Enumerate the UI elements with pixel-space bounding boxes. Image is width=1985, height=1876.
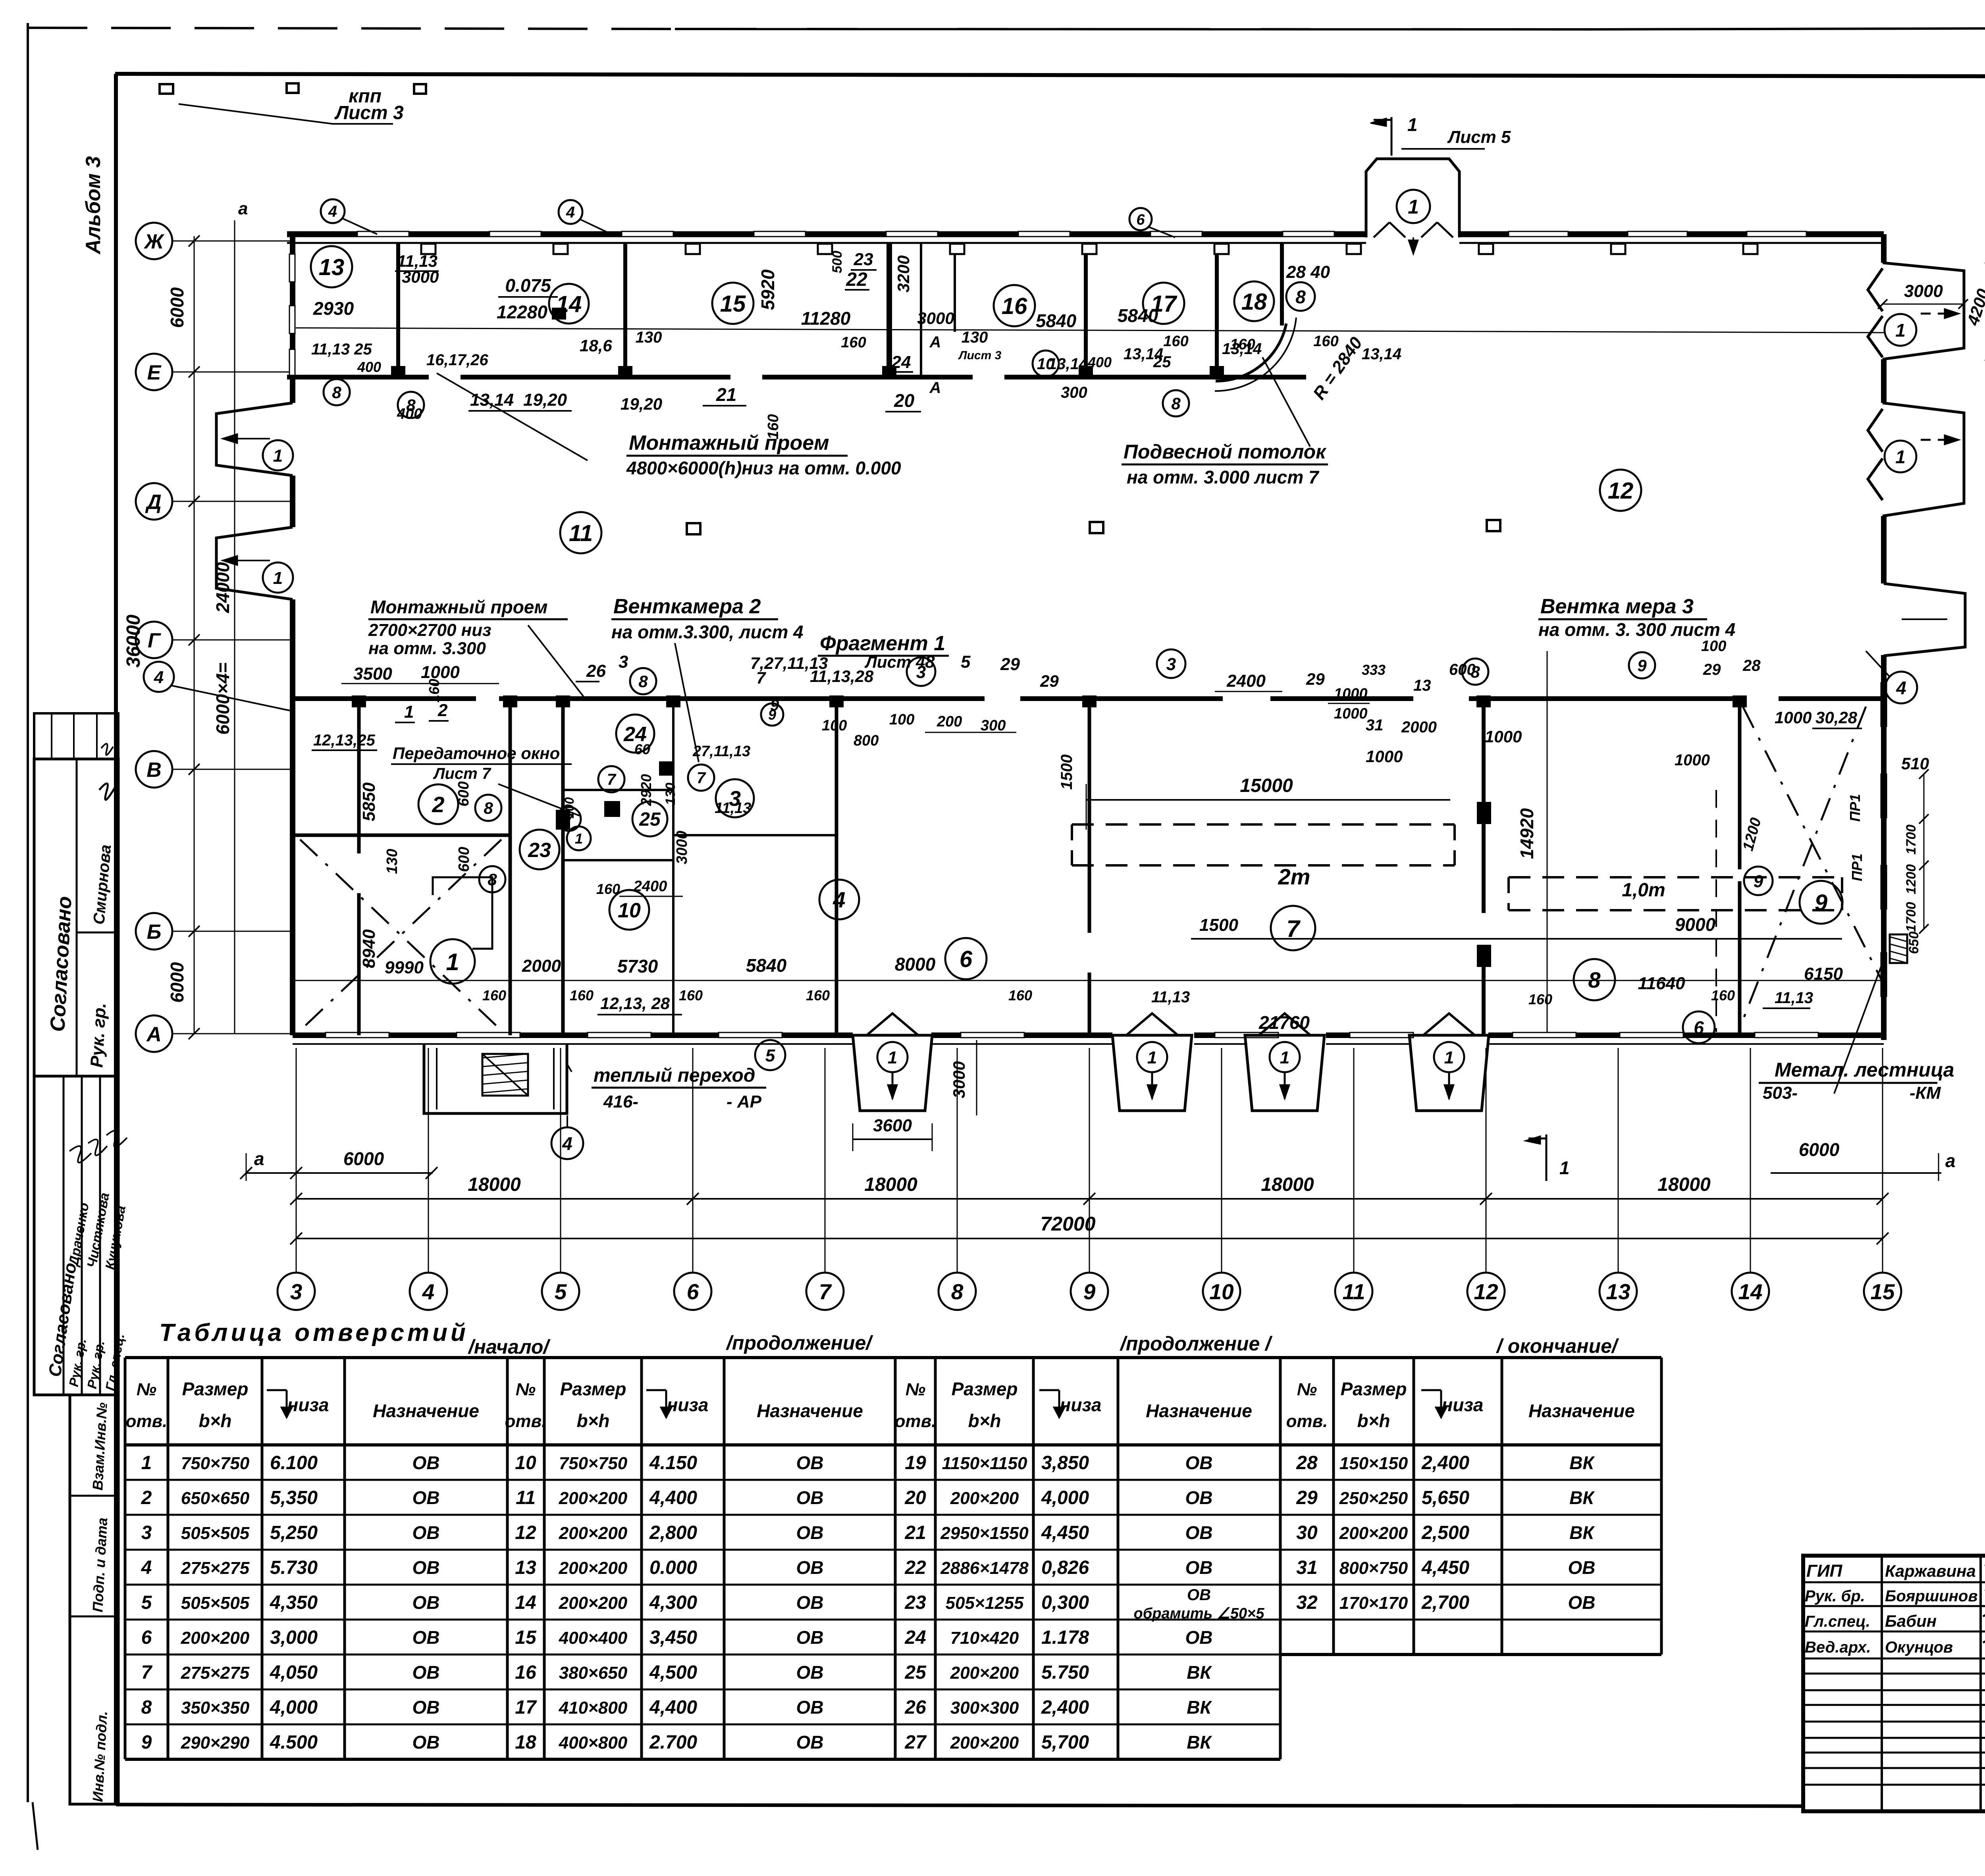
svg-text:3200: 3200 [894,255,913,292]
room circle 4 [819,880,859,919]
note circle 7a [598,766,624,792]
svg-text:Лист 5: Лист 5 [1447,127,1511,147]
svg-text:6000: 6000 [167,287,187,328]
room circle 16 [994,285,1035,326]
svg-text:1700: 1700 [1904,902,1919,932]
room circle 10 [609,890,649,930]
svg-text:ВК: ВК [1569,1487,1595,1508]
svg-text:7: 7 [1286,915,1301,942]
svg-text:15000: 15000 [1240,775,1293,796]
partition 1-2 [357,699,361,853]
svg-text:Размер: Размер [952,1379,1018,1399]
svg-text:/ окончание/: / окончание/ [1496,1335,1619,1357]
title block left grid [1881,1556,1883,1811]
svg-text:250×250: 250×250 [1339,1489,1408,1508]
svg-text:650×650: 650×650 [181,1489,250,1508]
svg-text:16,17,26: 16,17,26 [426,351,488,369]
svg-text:32: 32 [1296,1592,1318,1613]
svg-text:ВК: ВК [1187,1662,1212,1683]
svg-text:4: 4 [422,1279,435,1304]
outer border left line [27,23,29,1802]
svg-text:200×200: 200×200 [950,1489,1019,1508]
axis extension lines bottom [296,1048,297,1273]
svg-text:ОВ: ОВ [796,1627,824,1648]
note circle 1a [567,826,591,850]
svg-text:15: 15 [1870,1279,1895,1304]
svg-text:12,13,25: 12,13,25 [313,732,375,749]
svg-text:160: 160 [806,987,830,1003]
svg-text:25: 25 [639,809,661,830]
svg-text:3,450: 3,450 [649,1627,697,1648]
svg-text:А: А [146,1023,162,1046]
svg-text:25: 25 [904,1662,927,1683]
svg-text:1: 1 [273,568,283,588]
svg-text:Размер: Размер [560,1379,626,1399]
svg-text:№: № [516,1380,536,1399]
lower band top wall [294,696,476,701]
svg-text:27: 27 [904,1732,927,1753]
outer border top line [28,28,675,29]
svg-text:8: 8 [951,1279,964,1304]
svg-text:9: 9 [1083,1279,1096,1304]
svg-text:275×275: 275×275 [181,1558,250,1578]
svg-text:4,050: 4,050 [270,1662,318,1683]
svg-text:4,450: 4,450 [1041,1522,1089,1543]
openings table group 4 grid [1280,1356,1661,1359]
svg-text:5,650: 5,650 [1422,1487,1469,1508]
bottom wall window slits [326,1032,389,1038]
floor drain symbol [552,308,566,320]
svg-text:5.730: 5.730 [270,1557,318,1578]
partition room2 bottom [294,834,510,837]
svg-text:Назначение: Назначение [373,1400,479,1421]
svg-text:160: 160 [1008,987,1032,1003]
svg-text:29: 29 [1296,1487,1318,1508]
svg-text:8: 8 [638,672,648,691]
svg-text:11: 11 [516,1487,536,1508]
svg-text:23: 23 [528,839,551,862]
svg-text:200×200: 200×200 [559,1489,628,1508]
top band partition 14-15 [623,243,627,377]
svg-text:ОВ: ОВ [412,1452,440,1473]
svg-text:2,400: 2,400 [1041,1697,1089,1718]
crane rail dim 9000 [1191,938,1842,940]
partition 23-10 [561,699,565,1035]
top band bottom wall [287,375,429,379]
svg-text:300: 300 [1061,384,1087,401]
svg-text:200×200: 200×200 [559,1524,628,1543]
svg-text:13: 13 [319,254,345,280]
svg-text:170×170: 170×170 [1339,1593,1408,1613]
right porch upper [1883,263,1964,359]
svg-text:31: 31 [1296,1557,1317,1578]
svg-text:2,500: 2,500 [1421,1522,1469,1543]
svg-text:26: 26 [586,661,606,681]
svg-text:503-: 503- [1763,1083,1798,1103]
svg-text:8940: 8940 [359,929,379,968]
svg-text:13: 13 [1413,677,1431,694]
svg-text:3: 3 [916,663,926,682]
svg-text:11,13,28: 11,13,28 [810,667,874,686]
note circle 8 top right [1286,282,1315,311]
svg-text:1: 1 [1408,196,1419,218]
svg-text:505×1255: 505×1255 [946,1593,1024,1613]
svg-text:2400: 2400 [1226,671,1266,691]
svg-text:Подвесной потолок: Подвесной потолок [1124,441,1327,463]
svg-text:А: А [929,379,941,397]
svg-text:2,700: 2,700 [1421,1592,1469,1613]
room circle 11 [560,512,601,553]
svg-text:1,0т: 1,0т [1622,880,1665,901]
svg-text:№: № [906,1380,925,1399]
svg-text:6: 6 [1694,1017,1704,1038]
partition 8-9 [1738,701,1742,869]
svg-text:9990: 9990 [385,958,424,977]
svg-text:ОВ: ОВ [1568,1592,1596,1613]
svg-text:Б: Б [147,921,162,944]
svg-text:200: 200 [937,713,962,730]
svg-text:Назначение: Назначение [757,1400,863,1421]
note circle 9b [1629,652,1655,678]
svg-text:6: 6 [1136,212,1145,228]
lower band shaft blocks [556,810,570,830]
svg-text:5,350: 5,350 [270,1487,318,1508]
svg-text:100: 100 [822,717,847,734]
svg-text:4: 4 [154,668,164,687]
note circle 8 left2 [398,392,424,418]
openings table group 2 grid [507,1356,895,1359]
room circle 25 [632,801,667,836]
svg-text:29: 29 [1000,655,1020,674]
svg-text:1: 1 [273,446,283,466]
svg-text:3: 3 [1166,655,1176,674]
svg-text:1: 1 [575,830,583,847]
svg-text:4,350: 4,350 [270,1592,318,1613]
hall small squares [687,523,700,534]
svg-text:600: 600 [1449,661,1476,678]
svg-text:5730: 5730 [617,956,658,977]
svg-text:200×200: 200×200 [950,1733,1019,1753]
axis circles bottom row [278,1273,315,1310]
svg-text:600: 600 [455,781,472,806]
svg-text:410×800: 410×800 [559,1698,628,1718]
svg-text:а: а [254,1148,264,1169]
svg-text:Бабин: Бабин [1885,1612,1937,1630]
svg-text:ОВ: ОВ [1185,1452,1213,1473]
svg-text:6: 6 [960,946,973,972]
svg-text:В: В [146,759,162,782]
room1 cross bracing [300,840,501,1030]
svg-text:Е: Е [147,361,162,384]
note circle 8a [475,795,501,821]
svg-text:25: 25 [1153,353,1171,371]
svg-text:750×750: 750×750 [181,1454,250,1473]
svg-text:130: 130 [384,849,401,874]
room circle 23 [520,830,559,869]
svg-text:400×800: 400×800 [559,1733,628,1753]
svg-text:2,800: 2,800 [649,1522,697,1543]
svg-text:6: 6 [687,1279,699,1304]
svg-text:13,14: 13,14 [1362,345,1401,363]
svg-text:4,000: 4,000 [1041,1487,1089,1508]
svg-text:Лист 7: Лист 7 [433,765,491,782]
room1 equipment outline [433,877,492,949]
inner frame bottom line [116,1805,1803,1806]
svg-text:275×275: 275×275 [181,1663,250,1683]
svg-text:333: 333 [1362,662,1386,678]
room9 cross bracing [1743,707,1882,980]
svg-text:6150: 6150 [1804,964,1843,984]
svg-text:16: 16 [515,1662,536,1683]
top band shaft wall 16 [920,243,922,377]
left stamp 2 box [34,1076,118,1395]
top band shaft wall 15 [887,243,892,377]
top band room18 right wall [1280,243,1284,326]
dimension line 6000 left bottom [246,1172,433,1174]
svg-text:4: 4 [566,204,575,221]
crane rail dim 15000 [1086,799,1450,801]
svg-text:350×350: 350×350 [181,1698,250,1718]
svg-text:5.750: 5.750 [1041,1662,1089,1683]
svg-text:ВК: ВК [1569,1522,1595,1543]
note circle 8d [1462,659,1488,685]
svg-text:10: 10 [1037,355,1055,373]
svg-text:9000: 9000 [1675,914,1716,935]
svg-text:2,400: 2,400 [1421,1452,1469,1473]
room circle 17 [1143,283,1184,324]
svg-text:300×300: 300×300 [950,1698,1019,1718]
svg-text:6.100: 6.100 [270,1452,318,1473]
svg-text:11640: 11640 [1638,974,1685,993]
svg-text:600: 600 [456,847,472,872]
svg-text:Гл.спец.: Гл.спец. [1805,1613,1870,1630]
svg-text:2920: 2920 [638,774,654,806]
svg-text:а: а [238,199,248,218]
room circle 13 [311,246,352,287]
svg-text:7: 7 [819,1279,832,1304]
svg-text:3: 3 [141,1522,152,1543]
top band partition 16-17 [1084,243,1088,377]
svg-text:Назначение: Назначение [1146,1400,1252,1421]
room18 curved wall [1216,324,1286,381]
svg-text:1200: 1200 [1904,864,1919,894]
svg-text:Передаточное окно: Передаточное окно [393,744,560,763]
svg-text:3000: 3000 [950,1061,968,1098]
pilasters top band [391,366,405,377]
bottom vestibules [853,1035,932,1111]
svg-text:низа: низа [1060,1394,1102,1415]
svg-text:2: 2 [432,792,444,817]
svg-text:1500: 1500 [1058,755,1075,790]
svg-text:11280: 11280 [801,308,851,329]
partition 2-23 [509,699,512,1035]
svg-text:6000: 6000 [1799,1139,1840,1160]
svg-text:ПР1: ПР1 [1849,853,1865,881]
svg-text:8: 8 [488,870,497,889]
svg-text:800×750: 800×750 [1339,1558,1408,1578]
dashed column line 14920 [1547,651,1548,1032]
svg-text:Ж: Ж [143,230,165,253]
svg-text:18: 18 [515,1732,536,1753]
top band partition 17-18 [1215,243,1219,377]
svg-text:36000: 36000 [123,614,144,668]
svg-text:505×505: 505×505 [181,1593,250,1613]
svg-text:100: 100 [889,711,914,728]
lower band top wall pilasters [352,695,366,707]
svg-text:Лист 3: Лист 3 [958,349,1002,362]
right wall [1881,234,1887,263]
room circle 15 [712,283,754,324]
svg-text:650: 650 [1906,932,1921,954]
svg-text:4: 4 [833,887,845,912]
svg-text:505×505: 505×505 [181,1524,250,1543]
svg-text:100: 100 [1701,638,1726,655]
svg-text:160: 160 [596,881,620,897]
svg-text:5,250: 5,250 [270,1522,318,1543]
svg-text:ВК: ВК [1187,1697,1212,1718]
title block outer box [1803,1556,1985,1811]
svg-text:7: 7 [607,771,617,788]
svg-text:12,13, 28: 12,13, 28 [600,994,670,1013]
svg-text:26: 26 [904,1697,926,1718]
svg-text:на отм. 3.300: на отм. 3.300 [368,639,486,658]
room circle 24 [616,715,654,753]
svg-text:5920: 5920 [757,269,778,310]
svg-text:9: 9 [1815,890,1827,916]
svg-text:3,000: 3,000 [270,1627,318,1648]
svg-text:ОВ: ОВ [796,1487,824,1508]
note circle 8c [630,668,656,694]
svg-text:160: 160 [679,987,703,1003]
svg-text:Бояршинов: Бояршинов [1885,1587,1978,1605]
svg-text:1500: 1500 [1199,915,1238,935]
svg-text:18,6: 18,6 [580,336,612,355]
svg-text:3000: 3000 [674,831,690,865]
left porch lower [216,527,293,599]
svg-text:15: 15 [515,1627,537,1648]
svg-text:7: 7 [697,769,706,787]
svg-text:160: 160 [841,334,866,351]
svg-text:5840: 5840 [746,955,787,976]
svg-text:14920: 14920 [1517,808,1537,859]
svg-text:16: 16 [1002,293,1027,319]
svg-text:1000: 1000 [1485,727,1522,746]
note circle 9a [1744,867,1773,895]
svg-text:13: 13 [515,1557,536,1578]
svg-text:4: 4 [328,203,337,220]
svg-text:24: 24 [904,1627,926,1648]
svg-text:Размер: Размер [182,1379,249,1399]
axis circle 3 leaders lower [907,657,935,686]
partition 24-25 walls [672,699,675,1035]
svg-text:8: 8 [406,396,416,414]
svg-text:19: 19 [905,1452,926,1473]
svg-text:0.075: 0.075 [505,275,551,296]
svg-text:160: 160 [426,679,442,703]
svg-text:b×h: b×h [198,1410,231,1431]
svg-text:2400: 2400 [633,878,667,895]
svg-text:30: 30 [1296,1522,1318,1543]
svg-text:23: 23 [854,250,873,269]
svg-text:13: 13 [1606,1279,1630,1304]
svg-text:1000: 1000 [1334,705,1368,722]
svg-text:Монтажный проем: Монтажный проем [370,597,547,617]
warm passage stair hatch [482,1054,528,1096]
svg-text:5850: 5850 [359,782,379,821]
svg-text:ОВ: ОВ [412,1732,440,1753]
svg-text:130: 130 [636,329,662,346]
svg-text:750×750: 750×750 [559,1454,628,1473]
room circle 7 [1271,906,1315,950]
svg-text:1000: 1000 [1675,751,1710,769]
crane rail 1t dashed [1509,876,1842,878]
svg-text:ОВ: ОВ [1185,1627,1213,1648]
svg-text:19,20: 19,20 [523,390,567,410]
svg-text:5840: 5840 [1118,305,1158,326]
svg-text:15: 15 [720,291,746,317]
svg-text:11: 11 [569,520,593,546]
svg-text:17: 17 [515,1697,537,1718]
svg-text:11,13: 11,13 [1151,988,1190,1006]
svg-text:2т: 2т [1278,864,1310,889]
top margin small square 3 [414,84,426,94]
svg-text:ОВ: ОВ [796,1522,824,1543]
svg-text:4,400: 4,400 [649,1697,697,1718]
svg-text:ОВ: ОВ [412,1487,440,1508]
note circle 7c [557,807,581,831]
svg-text:8: 8 [332,383,341,402]
svg-text:низа: низа [1442,1394,1484,1415]
svg-text:3500: 3500 [353,664,392,684]
svg-text:510: 510 [1901,754,1929,773]
top margin small square 2 [287,83,299,93]
svg-text:2.700: 2.700 [649,1732,697,1753]
svg-text:20: 20 [894,390,915,411]
svg-text:5,700: 5,700 [1041,1732,1089,1753]
svg-text:24: 24 [891,352,911,372]
svg-text:Каржавина: Каржавина [1885,1562,1976,1580]
right wall stair hatch [1890,934,1907,963]
svg-text:1: 1 [1444,1048,1454,1067]
svg-text:Метал. лестница: Метал. лестница [1775,1059,1954,1081]
svg-text:4,400: 4,400 [649,1487,697,1508]
svg-text:11: 11 [1342,1279,1365,1304]
svg-text:ОВ: ОВ [796,1592,824,1613]
svg-text:1.178: 1.178 [1041,1627,1089,1648]
svg-text:3: 3 [619,652,628,672]
svg-text:№: № [137,1380,156,1399]
svg-text:низа: низа [667,1394,709,1415]
svg-text:Таблица отверстий: Таблица отверстий [159,1319,469,1346]
svg-text:ВК: ВК [1569,1452,1595,1473]
svg-text:28 40: 28 40 [1286,262,1330,282]
warm passage room [424,1044,567,1113]
right wall window slits [1881,683,1887,726]
svg-text:21: 21 [904,1522,926,1543]
svg-text:6000: 6000 [343,1148,384,1169]
svg-text:3000: 3000 [917,309,954,327]
svg-text:8: 8 [925,652,935,672]
svg-text:ОВ: ОВ [412,1592,440,1613]
svg-text:Альбом 3: Альбом 3 [82,156,105,255]
svg-text:11,13: 11,13 [1775,989,1813,1007]
svg-text:4: 4 [141,1557,152,1578]
svg-text:Венткамера 2: Венткамера 2 [613,595,761,618]
svg-text:31: 31 [1366,717,1384,734]
svg-text:1: 1 [1895,447,1906,467]
room circle 6 [945,938,987,979]
svg-text:200×200: 200×200 [950,1663,1019,1683]
